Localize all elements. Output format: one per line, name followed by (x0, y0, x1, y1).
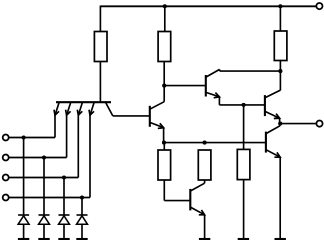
terminal input D (3, 195, 9, 201)
node input C / D3 junction (62, 175, 66, 179)
node Vcc-R2 junction (163, 4, 167, 8)
ground (Q6) (199, 238, 210, 240)
ground (D3) (58, 238, 69, 240)
resistor R6 (Darlington bleed) (237, 149, 250, 179)
wire input B (9, 157, 67, 159)
wire Vcc to R1 (99, 6, 101, 32)
node Vcc-R3 junction (278, 4, 282, 8)
node input B / D2 junction (42, 155, 46, 159)
terminal Vcc (316, 3, 322, 9)
wire Vcc to R2 (164, 6, 166, 31)
ground (D1) (18, 238, 29, 240)
wire Q1 collector to Q2 base (113, 115, 149, 117)
wire node to R6 (243, 105, 245, 149)
node R6 branch junction (242, 103, 246, 107)
node Q2 collector / Q3 base junction (162, 84, 166, 88)
diode D2 (input clamp) (39, 214, 50, 216)
node input A / D1 junction (22, 135, 26, 139)
wire input to diode D1 (23, 138, 25, 216)
wire input to diode D2 (43, 158, 45, 216)
resistor R1 (94, 32, 107, 62)
wire R1 to Q1 base (99, 62, 101, 102)
wire input D (9, 197, 90, 199)
wire input to diode D3 (63, 178, 65, 216)
wire D2 to ground (43, 224, 45, 238)
wire Q2 emitter down (163, 128, 165, 144)
wire Q3 collector to node (219, 69, 221, 71)
wire D4 to ground (81, 224, 83, 238)
ground (D4) (76, 238, 87, 240)
transistor Q3 (Darlington driver) (206, 69, 220, 97)
wire input C (9, 177, 79, 179)
wire output (280, 123, 316, 125)
node Q3/Q4 collector junction (278, 69, 282, 73)
wire D3 to ground (63, 224, 65, 238)
wire R4 to Q6 base (163, 180, 165, 201)
wire D1 to ground (23, 224, 25, 238)
resistor R2 (158, 32, 171, 62)
terminal output Y (316, 121, 322, 127)
ground (Q5) (275, 238, 286, 240)
wire Q3 emitter to Q4 base (218, 97, 220, 105)
wire Q2 emitter to Q5 base (164, 142, 265, 144)
diode D1 (input clamp) (18, 214, 29, 216)
wire R6 to ground (243, 180, 245, 239)
diode D3 (input clamp) (59, 214, 70, 216)
ground (R6) (238, 238, 249, 240)
terminal input C (3, 175, 9, 181)
wire R2 to Q2 collector (163, 62, 165, 102)
terminal input B (3, 155, 9, 161)
wire R5 to Q6 collector (204, 180, 206, 183)
node input D / D4 junction (80, 195, 84, 199)
wire R3 to collector node (279, 61, 281, 72)
wire Q4 emitter to output node (279, 118, 281, 124)
wire Vcc rail (100, 5, 316, 7)
terminal input A (3, 135, 9, 141)
node output junction (278, 122, 282, 126)
transistor Q6 (squaring network) (190, 183, 204, 215)
transistor Q5 (output pull-down) (266, 126, 280, 158)
ground (D2) (38, 238, 49, 240)
wire to Q3 base (164, 85, 205, 87)
node R5 branch junction (203, 141, 207, 145)
transistor Q2 (phase splitter) (150, 102, 164, 129)
wire input A (9, 137, 55, 139)
resistor R4 (squaring base) (158, 150, 171, 180)
wire Q5 collector to output node (279, 124, 281, 126)
wire Vcc to R3 (279, 6, 281, 31)
wire Q6 emitter to ground (204, 215, 206, 239)
resistor R3 (274, 31, 287, 61)
node Q2 emitter junction (162, 141, 166, 145)
transistor Q1 (multi-emitter input) (54, 102, 113, 116)
resistor R5 (squaring collector) (198, 150, 211, 180)
diode D4 (input clamp) (77, 214, 88, 216)
wire collector node down to Q4 (279, 71, 281, 90)
wire input to diode D4 (81, 198, 83, 216)
transistor Q4 (output pull-up) (265, 90, 281, 118)
wire Q5 emitter to ground (279, 157, 281, 238)
